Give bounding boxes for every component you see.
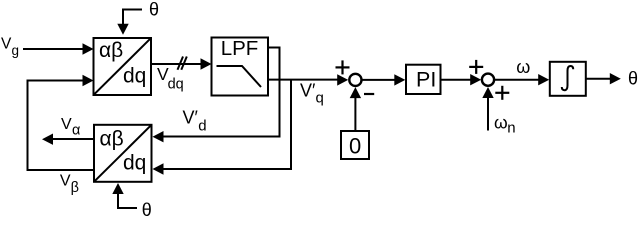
svg-text:V: V: [1, 36, 12, 53]
svg-text:d: d: [198, 118, 206, 135]
wire LPF d-tap down to V'_d into U2: [163, 48, 280, 137]
plus sign lower of S2: [495, 86, 509, 100]
wire Vg input: [23, 48, 85, 50]
wire LPF main output V'_q to summing node: [268, 79, 339, 81]
svg-text:V′: V′: [300, 81, 316, 101]
svg-text:αβ: αβ: [99, 39, 123, 62]
svg-text:ω: ω: [494, 112, 508, 132]
svg-text:αβ: αβ: [100, 127, 124, 150]
svg-text:ω: ω: [516, 57, 530, 77]
svg-text:V: V: [61, 116, 72, 133]
svg-text:dq: dq: [168, 76, 184, 92]
svg-text:V: V: [60, 173, 71, 190]
wire V_beta feedback from U2 around to U1 input: [28, 81, 95, 171]
vector bus double slash: [178, 57, 184, 70]
wire integrator output to theta: [585, 78, 612, 80]
svg-text:β: β: [71, 180, 79, 196]
wire theta stub into bottom of U2: [118, 193, 137, 209]
svg-text:n: n: [507, 119, 515, 136]
summing junction S1: [349, 74, 361, 86]
summing junction S2: [482, 74, 494, 86]
svg-text:θ: θ: [628, 68, 638, 88]
LPF block: [212, 38, 269, 96]
svg-text:q: q: [316, 89, 324, 106]
svg-text:dq: dq: [123, 151, 146, 174]
wire V'_q branch down into U2: [163, 80, 292, 170]
transform block U2 (dq to alpha-beta): [94, 125, 152, 182]
wire V_alpha output: [53, 138, 95, 140]
PI controller block: [406, 65, 441, 94]
svg-text:V′: V′: [183, 108, 199, 128]
wire PI to S2: [441, 79, 472, 81]
svg-text:α: α: [72, 122, 80, 138]
svg-text:LPF: LPF: [221, 37, 259, 60]
wire S1 to PI: [362, 79, 397, 81]
plus sign upper of S2: [469, 60, 483, 74]
plus sign of S1: [336, 60, 350, 74]
wire 0 up into S1: [354, 97, 356, 131]
wire theta stub into top of U1: [123, 10, 142, 26]
integrator block U3: [550, 62, 586, 96]
svg-text:θ: θ: [149, 0, 159, 20]
svg-text:θ: θ: [142, 200, 152, 220]
wire S2 to integrator: [494, 79, 540, 81]
wire omega_n up into S2: [487, 97, 489, 131]
svg-text:dq: dq: [123, 64, 146, 87]
svg-text:g: g: [12, 43, 20, 58]
block 0 (zero reference): [341, 131, 369, 159]
minus sign of S1: [364, 93, 374, 95]
wire U1 output V_dq to LPF: [151, 63, 203, 65]
transform block U1 (alpha-beta to dq): [94, 38, 152, 95]
svg-text:0: 0: [349, 133, 361, 158]
svg-text:PI: PI: [416, 68, 436, 92]
integral sign: [562, 66, 573, 90]
